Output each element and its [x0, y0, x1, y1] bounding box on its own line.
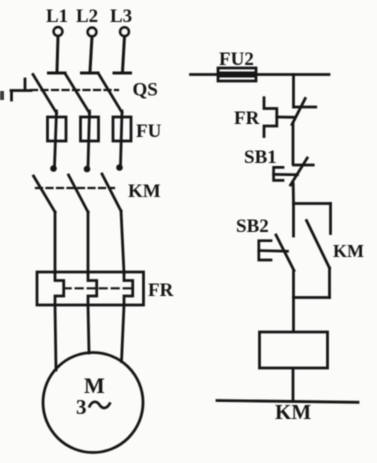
svg-text:FU: FU	[136, 121, 162, 142]
wire L3 terminal lead	[123, 36, 125, 71]
wire control top rail	[191, 73, 330, 76]
motor M circle	[43, 353, 143, 453]
contactor KM aux label	[333, 241, 364, 261]
thermal relay FR contact label	[234, 108, 260, 129]
pushbutton SB1 label	[244, 147, 277, 168]
wire KM to FR column 1	[54, 212, 57, 273]
wire L2 terminal lead	[90, 37, 92, 72]
pushbutton SB1 NC contact bar	[294, 164, 314, 167]
svg-text:KM: KM	[333, 241, 364, 261]
contactor KM coil	[260, 332, 328, 368]
switch QS handle	[11, 79, 31, 100]
wire parallel loop top	[294, 202, 331, 205]
svg-text:L2: L2	[76, 6, 98, 27]
scan smudge left edge	[0, 91, 4, 100]
node L1 label	[46, 6, 68, 27]
wire FR contact to SB1	[292, 123, 295, 164]
contactor KM label	[128, 181, 161, 202]
terminal L3 circle	[120, 27, 129, 36]
fuse FU pole 2	[81, 117, 99, 141]
pushbutton SB1 operator E	[274, 167, 283, 180]
contactor KM pole 3 blade	[102, 174, 121, 211]
contactor KM pole 1 blade	[34, 176, 56, 212]
thermal relay FR heater 3	[124, 272, 133, 305]
svg-text:SB2: SB2	[236, 216, 269, 237]
wire FR to motor phase 1	[55, 305, 56, 370]
wire FR to motor phase 3	[122, 305, 125, 362]
motor M label	[84, 373, 105, 398]
wire SB2 top lead	[292, 204, 295, 237]
contactor KM mechanical linkage dashed	[36, 187, 114, 189]
svg-text:L3: L3	[110, 6, 132, 27]
wire parallel loop bottom	[294, 296, 330, 299]
contactor KM aux contact bottom lead	[328, 268, 331, 298]
wire fuse column 1	[55, 111, 57, 166]
thermal relay FR contact operator	[264, 98, 277, 137]
svg-text:M: M	[84, 373, 105, 398]
svg-text:QS: QS	[133, 80, 158, 101]
pushbutton SB2 operator E	[259, 241, 271, 260]
thermal relay FR heater 2	[88, 272, 97, 305]
svg-text:KM: KM	[275, 400, 311, 424]
thermal relay FR label	[148, 280, 174, 301]
fuse FU pole 1	[48, 117, 67, 141]
svg-text:SB1: SB1	[244, 147, 277, 168]
contactor KM aux contact blade	[307, 221, 330, 269]
switch QS pole 2 fixed contact bar	[82, 72, 99, 75]
thermal relay FR heater 1	[55, 272, 64, 305]
wire control bottom rail	[217, 401, 358, 403]
wire SB2 bottom lead	[292, 271, 295, 298]
wire coil to bottom rail	[292, 369, 295, 401]
contactor KM pole 1 upper terminal dot	[50, 165, 57, 172]
svg-text:KM: KM	[128, 181, 161, 202]
pushbutton SB2 blade	[276, 235, 294, 271]
fuse FU label	[136, 121, 162, 142]
pushbutton SB1 operator link	[274, 173, 298, 176]
wire KM to FR column 2	[87, 212, 90, 273]
svg-text:FR: FR	[234, 108, 260, 129]
contactor KM pole 3 upper terminal dot	[116, 164, 123, 171]
contactor KM pole 2 blade	[69, 175, 89, 212]
switch QS pole 2 blade	[66, 75, 90, 113]
switch QS pole 3 fixed contact bar	[114, 72, 131, 75]
fuse FU2 label	[219, 49, 254, 70]
contactor KM pole 2 upper terminal dot	[84, 166, 91, 173]
switch QS pole 1 blade	[33, 75, 57, 114]
svg-text:L1: L1	[46, 6, 68, 27]
contactor KM coil label	[275, 400, 311, 424]
motor 3-phase label	[76, 395, 110, 419]
switch QS pole 3 blade	[99, 75, 122, 113]
terminal L1 circle	[54, 27, 63, 36]
wire FR to motor phase 2	[88, 305, 89, 353]
thermal relay FR NC contact bar	[294, 106, 316, 109]
wire to coil	[292, 298, 295, 332]
wire SB1 to junction	[292, 184, 295, 204]
pushbutton SB1 blade	[291, 158, 308, 185]
wire KM to FR column 3	[121, 211, 124, 273]
svg-text:3: 3	[76, 395, 87, 419]
thermal relay FR operator link	[277, 116, 294, 119]
contactor KM aux contact top lead	[329, 204, 332, 234]
thermal relay FR linkage dashed	[64, 287, 133, 289]
fuse FU2 body	[218, 68, 256, 81]
terminal L2 circle	[88, 28, 97, 37]
wire L1 terminal lead	[57, 36, 58, 72]
switch QS pole 1 fixed contact bar	[49, 72, 66, 75]
thermal relay FR NC contact blade	[292, 99, 305, 125]
node L3 label	[110, 6, 132, 27]
svg-text:FR: FR	[148, 280, 174, 301]
node L2 label	[76, 6, 98, 27]
wire drop to FR contact	[292, 75, 295, 108]
wire fuse column 2	[88, 111, 90, 167]
switch QS label	[133, 80, 158, 101]
switch QS mechanical linkage dashed	[31, 89, 118, 91]
fuse FU pole 3	[113, 117, 131, 141]
pushbutton SB2 operator link	[259, 249, 288, 252]
wire fuse column 3	[121, 111, 123, 165]
pushbutton SB2 label	[236, 216, 269, 237]
thermal relay FR box	[37, 272, 144, 305]
